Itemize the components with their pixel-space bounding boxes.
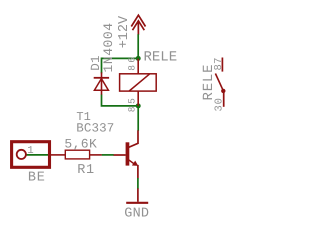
ground pin line: [137, 188, 139, 201]
svg-text:1N4004: 1N4004: [101, 22, 116, 72]
wire diode anode to bottom junction: [102, 95, 139, 106]
transistor T1 emitter arrowhead: [132, 161, 138, 166]
svg-text:1: 1: [27, 145, 33, 157]
wire emitter to GND: [137, 178, 139, 189]
svg-text:86: 86: [127, 55, 138, 71]
connector BE pin circle: [17, 150, 26, 159]
ground bar: [126, 202, 148, 204]
svg-text:RELE: RELE: [201, 64, 217, 101]
relay K1 pin 86 line: [137, 59, 139, 74]
resistor R1 right lead: [90, 154, 102, 156]
transistor T1 base pin: [113, 154, 125, 156]
svg-text:GND: GND: [124, 207, 149, 220]
relay contact pin 30 line: [223, 91, 225, 107]
wire top junction to diode cathode: [102, 58, 139, 73]
diode D1 triangle: [94, 79, 108, 91]
svg-text:5,6K: 5,6K: [64, 136, 97, 151]
svg-text:R1: R1: [77, 163, 95, 178]
transistor T1 collector pin: [128, 130, 138, 147]
junction node bottom: [136, 103, 141, 108]
svg-text:RELE: RELE: [144, 50, 178, 66]
svg-text:BC337: BC337: [76, 121, 114, 135]
transistor T1 emitter pin line: [137, 165, 139, 178]
relay contact arm: [215, 74, 223, 91]
transistor T1 emitter line: [129, 160, 136, 165]
relay K1 coil box: [120, 74, 157, 91]
svg-text:+12V: +12V: [117, 15, 132, 48]
diode D1 pin line: [101, 72, 103, 95]
connector BE box: [12, 142, 50, 168]
svg-text:BE: BE: [28, 171, 46, 186]
supply +12V arrow symbol: [131, 15, 145, 35]
wire bottom junction to collector: [137, 106, 139, 131]
wire resistor to transistor base: [102, 154, 114, 156]
relay K1 coil diagonal: [129, 74, 150, 91]
relay K1 pin 85 line: [137, 91, 139, 106]
relay contact pin 87 line: [221, 58, 223, 72]
relay contact pivot dot: [221, 89, 225, 93]
resistor R1 body: [65, 150, 89, 159]
wire supply to top junction: [137, 34, 139, 59]
wire BE pin to box edge: [26, 154, 48, 156]
diode D1 cathode bar: [94, 77, 109, 79]
svg-text:85: 85: [127, 96, 138, 113]
junction node top: [136, 56, 141, 61]
resistor R1 left lead: [51, 154, 66, 156]
transistor T1 base bar: [126, 142, 130, 165]
